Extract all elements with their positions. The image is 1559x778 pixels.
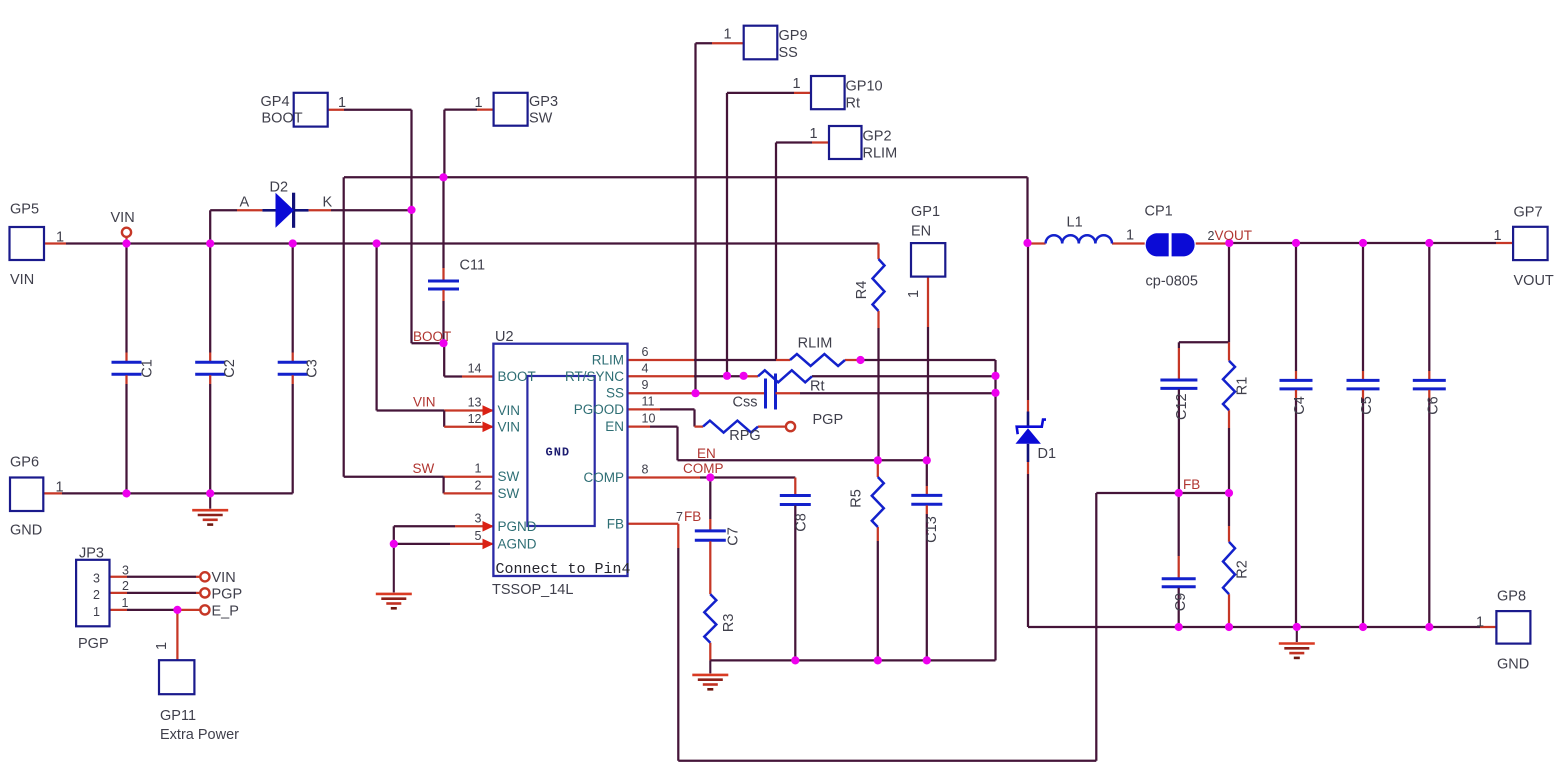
svg-text:C5: C5	[1359, 396, 1375, 415]
svg-text:E_P: E_P	[212, 604, 239, 620]
svg-text:1: 1	[475, 95, 483, 111]
svg-text:GP9: GP9	[779, 28, 808, 44]
svg-text:5: 5	[475, 529, 482, 543]
svg-text:GP2: GP2	[863, 129, 892, 145]
svg-text:VOUT: VOUT	[1215, 228, 1253, 243]
svg-text:1: 1	[338, 95, 346, 111]
svg-text:C6: C6	[1425, 396, 1441, 415]
svg-text:VIN: VIN	[498, 403, 521, 418]
svg-text:D1: D1	[1038, 446, 1057, 462]
svg-text:GP11: GP11	[160, 708, 196, 724]
svg-text:Connect to Pin4: Connect to Pin4	[496, 561, 631, 578]
svg-text:R1: R1	[1235, 377, 1251, 396]
svg-text:R2: R2	[1235, 560, 1251, 579]
svg-text:R4: R4	[854, 281, 870, 300]
svg-text:1: 1	[793, 76, 801, 92]
svg-text:FB: FB	[684, 509, 701, 524]
svg-text:GND: GND	[546, 446, 571, 460]
svg-text:cp-0805: cp-0805	[1146, 274, 1198, 290]
svg-text:SS: SS	[779, 45, 798, 61]
svg-text:EN: EN	[911, 224, 931, 240]
svg-text:1: 1	[56, 480, 64, 496]
svg-text:12: 12	[468, 412, 482, 426]
svg-text:9: 9	[642, 378, 649, 392]
svg-text:PGOOD: PGOOD	[574, 402, 625, 417]
svg-text:1: 1	[154, 642, 170, 650]
svg-text:C1: C1	[140, 359, 156, 378]
svg-text:8: 8	[642, 463, 649, 477]
svg-text:3: 3	[93, 572, 100, 586]
svg-text:14: 14	[468, 362, 482, 376]
svg-text:11: 11	[642, 394, 655, 408]
svg-text:RLIM: RLIM	[863, 146, 898, 162]
svg-text:RPG: RPG	[729, 428, 760, 444]
svg-text:1: 1	[724, 27, 732, 43]
svg-text:SS: SS	[606, 386, 624, 401]
svg-text:1: 1	[1126, 228, 1134, 244]
svg-text:GND: GND	[10, 523, 42, 539]
svg-text:FB: FB	[607, 516, 624, 531]
svg-text:1: 1	[93, 605, 100, 619]
svg-text:13: 13	[468, 396, 482, 410]
svg-text:C4: C4	[1292, 396, 1308, 415]
svg-text:GP5: GP5	[10, 202, 39, 218]
svg-text:Rt: Rt	[846, 96, 861, 112]
svg-text:EN: EN	[605, 419, 624, 434]
svg-text:JP3: JP3	[79, 546, 104, 562]
svg-text:C8: C8	[794, 513, 810, 532]
svg-text:1: 1	[122, 596, 129, 610]
svg-text:C3: C3	[304, 359, 320, 378]
svg-text:GP4: GP4	[261, 94, 290, 110]
svg-text:PGP: PGP	[212, 587, 243, 603]
svg-text:FB: FB	[1183, 477, 1200, 492]
svg-text:2: 2	[1208, 229, 1215, 243]
svg-text:2: 2	[475, 478, 482, 492]
svg-text:GP7: GP7	[1514, 205, 1543, 221]
svg-text:PGND: PGND	[498, 519, 537, 534]
svg-text:R5: R5	[849, 489, 865, 508]
svg-text:C2: C2	[222, 359, 238, 378]
svg-text:C13: C13	[924, 516, 940, 543]
svg-text:SW: SW	[413, 461, 435, 476]
svg-text:GP3: GP3	[529, 94, 558, 110]
svg-text:COMP: COMP	[683, 461, 724, 476]
svg-text:1: 1	[475, 462, 482, 476]
svg-text:6: 6	[642, 345, 649, 359]
svg-text:RLIM: RLIM	[798, 336, 833, 352]
svg-text:C7: C7	[726, 527, 742, 546]
svg-text:VOUT: VOUT	[1514, 273, 1554, 289]
svg-text:A: A	[240, 195, 250, 211]
svg-text:L1: L1	[1067, 215, 1083, 231]
svg-text:C11: C11	[460, 258, 486, 274]
svg-text:1: 1	[1494, 228, 1502, 244]
svg-text:BOOT: BOOT	[413, 329, 451, 344]
svg-text:BOOT: BOOT	[498, 369, 536, 384]
svg-text:Rt: Rt	[810, 379, 825, 395]
svg-text:3: 3	[475, 511, 482, 525]
svg-text:BOOT: BOOT	[262, 111, 303, 127]
svg-text:GP1: GP1	[911, 204, 940, 220]
svg-text:Extra Power: Extra Power	[160, 727, 239, 743]
svg-text:C9: C9	[1173, 593, 1189, 612]
svg-text:SW: SW	[498, 469, 520, 484]
svg-text:CP1: CP1	[1145, 204, 1173, 220]
svg-text:RLIM: RLIM	[592, 353, 624, 368]
svg-text:SW: SW	[529, 111, 553, 127]
svg-text:GP6: GP6	[10, 455, 39, 471]
svg-text:K: K	[323, 195, 333, 211]
svg-text:C12: C12	[1174, 393, 1190, 420]
svg-text:GP10: GP10	[846, 79, 883, 95]
svg-text:GP8: GP8	[1497, 589, 1526, 605]
svg-text:SW: SW	[498, 486, 520, 501]
svg-text:EN: EN	[697, 446, 716, 461]
svg-text:TSSOP_14L: TSSOP_14L	[492, 582, 573, 598]
svg-text:VIN: VIN	[10, 272, 34, 288]
svg-text:R3: R3	[721, 614, 737, 633]
svg-text:1: 1	[1476, 615, 1484, 631]
svg-text:10: 10	[642, 412, 656, 426]
svg-text:1: 1	[810, 126, 818, 142]
svg-text:PGP: PGP	[78, 636, 109, 652]
svg-text:RT/SYNC: RT/SYNC	[565, 369, 624, 384]
svg-text:GND: GND	[1497, 657, 1529, 673]
svg-text:VIN: VIN	[413, 395, 436, 410]
svg-text:2: 2	[93, 588, 100, 602]
svg-text:AGND: AGND	[498, 536, 537, 551]
svg-text:Css: Css	[733, 395, 758, 411]
svg-text:7: 7	[676, 510, 683, 524]
svg-text:3: 3	[122, 564, 129, 578]
svg-text:U2: U2	[495, 329, 514, 345]
svg-text:2: 2	[122, 579, 129, 593]
svg-text:VIN: VIN	[111, 210, 135, 226]
svg-text:COMP: COMP	[584, 470, 625, 485]
svg-text:PGP: PGP	[813, 412, 844, 428]
svg-text:1: 1	[56, 230, 64, 246]
svg-text:VIN: VIN	[212, 570, 236, 586]
svg-text:1: 1	[906, 290, 922, 298]
svg-text:VIN: VIN	[498, 419, 521, 434]
svg-text:D2: D2	[270, 180, 289, 196]
svg-text:4: 4	[642, 361, 649, 375]
